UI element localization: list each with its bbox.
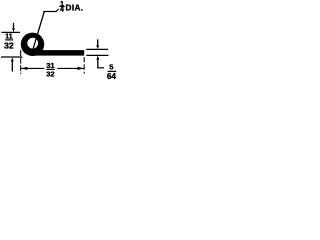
right extension line	[83, 57, 85, 74]
bottom dim left arrowhead	[21, 67, 27, 70]
left dim top tick line	[2, 31, 21, 33]
leader line diagonal	[33, 12, 45, 51]
leader end tick	[56, 9, 59, 12]
bottom dim line left segment	[21, 67, 44, 69]
left dim top arrow stem	[13, 23, 15, 30]
left dim bottom arrow stem	[11, 60, 13, 72]
right dim bottom arrowhead	[96, 56, 99, 60]
dim text 1/4 fraction bar	[59, 6, 64, 8]
right dim leader foot	[97, 67, 104, 69]
left dim bottom arrowhead	[11, 57, 14, 61]
left dim bottom tick line	[1, 56, 22, 58]
dim text 11/32 fraction bar	[5, 39, 13, 41]
svg-text:32: 32	[46, 69, 54, 78]
svg-text:64: 64	[107, 72, 117, 81]
leader line horizontal elbow	[43, 11, 56, 13]
right dim top arrow stem	[97, 39, 99, 47]
dim text 31/32 fraction bar	[46, 68, 54, 70]
bottom dim right arrowhead	[78, 67, 84, 70]
bottom dim line right segment	[57, 67, 84, 69]
right dim top tick line	[86, 48, 108, 50]
right dim bottom tick line	[86, 54, 108, 56]
svg-text:32: 32	[4, 41, 14, 51]
svg-text:4: 4	[60, 7, 64, 14]
svg-text:DIA.: DIA.	[66, 3, 84, 12]
right dim top arrowhead	[96, 45, 99, 49]
svg-text:5: 5	[109, 63, 113, 72]
flange bar	[33, 50, 84, 56]
right dim bottom arrow stem	[97, 58, 99, 68]
bulb ring (tube cross-section)	[21, 33, 44, 56]
left dim top arrowhead	[12, 28, 15, 32]
dim text 5/64 fraction bar	[108, 70, 117, 72]
left extension line	[20, 50, 22, 74]
